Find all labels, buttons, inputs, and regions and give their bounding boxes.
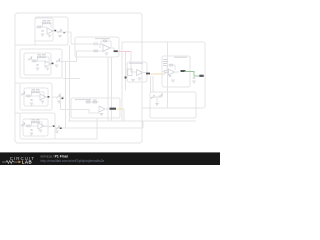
wire bus A2 xyxy=(69,45,71,121)
svg-text:LAB: LAB xyxy=(22,160,32,165)
stage2 feedback wire xyxy=(38,56,50,58)
feedback wire xyxy=(167,64,175,66)
wire xyxy=(98,43,103,45)
stage2 output wire xyxy=(51,63,54,65)
wire xyxy=(71,43,94,45)
wire xyxy=(68,120,196,122)
transistor Q2 xyxy=(159,94,163,98)
wire xyxy=(164,72,166,75)
svg-text:http://circuitlab.com/c/ce67qb: http://circuitlab.com/c/ce67qb4pkq6mna8w… xyxy=(41,159,105,163)
speaker label xyxy=(199,75,203,77)
wire xyxy=(15,82,20,84)
stage4 feedback wire xyxy=(32,121,43,123)
stage4 inner box xyxy=(23,119,48,136)
stage4 op-amp xyxy=(38,123,44,129)
wire bus B xyxy=(59,93,61,110)
input resistor xyxy=(165,71,169,73)
stage2 label xyxy=(52,63,54,65)
junction xyxy=(125,77,127,79)
wire xyxy=(52,96,56,98)
stage3 input capacitor xyxy=(30,100,32,101)
stage3 feedback resistor xyxy=(32,91,35,93)
wire xyxy=(143,72,147,74)
stage2 input source xyxy=(28,57,32,61)
driver op-amp xyxy=(137,70,143,76)
stage3 potentiometer xyxy=(56,95,60,99)
bottom op-amp ground xyxy=(100,114,104,116)
notes text xyxy=(163,58,168,61)
stage2 op-amp xyxy=(45,61,51,67)
wire xyxy=(85,101,99,103)
stage1 pot ground xyxy=(58,36,62,38)
right box divider xyxy=(167,42,169,108)
stage2 potentiometer xyxy=(56,59,60,63)
summing ground xyxy=(105,53,109,55)
stage4 output label xyxy=(53,125,55,127)
output amp box xyxy=(162,56,190,87)
op-amp cap xyxy=(169,76,171,77)
stage3 op-amp xyxy=(40,94,46,100)
driver ground xyxy=(131,80,135,82)
footer bar xyxy=(0,152,220,165)
stage4 feedback resistor xyxy=(32,121,35,123)
wire xyxy=(15,44,68,46)
driver op-amp ground xyxy=(138,78,142,80)
driver title xyxy=(129,62,143,65)
bottom amp title xyxy=(75,98,91,101)
stage4 output wire xyxy=(44,125,47,127)
summing feedback xyxy=(101,40,111,42)
stage2 ground xyxy=(36,68,40,70)
stage3 feedback wire xyxy=(32,91,45,93)
stage4 potentiometer xyxy=(56,126,60,130)
stage4 op-amp ground xyxy=(39,130,43,132)
green output label xyxy=(181,70,186,72)
wire xyxy=(175,71,180,73)
wire xyxy=(56,61,77,63)
wire xyxy=(121,42,123,121)
wire xyxy=(152,76,154,92)
stage1 value label xyxy=(43,19,47,22)
wire xyxy=(122,41,142,43)
stage2 input capacitor xyxy=(36,65,38,66)
annotation line xyxy=(55,138,97,140)
wire xyxy=(125,52,127,90)
stage3 node label xyxy=(62,98,64,100)
stage3 wire xyxy=(25,95,40,97)
stage2 pot ground xyxy=(55,65,59,67)
stage4 ground xyxy=(55,131,59,133)
stage1 inner box xyxy=(35,18,53,41)
stage2 feedback capacitor xyxy=(42,56,45,58)
stage3 value label xyxy=(32,88,36,91)
output node label xyxy=(114,50,118,52)
stage4 outer box xyxy=(20,113,55,139)
stage4 wire xyxy=(25,125,38,127)
stage4 junction xyxy=(60,127,62,129)
driver output label xyxy=(146,73,150,75)
stage4 feedback capacitor xyxy=(36,121,39,123)
wire xyxy=(152,96,162,98)
stage3 ground xyxy=(30,103,34,105)
pair ground xyxy=(155,104,159,106)
stage2 input resistor xyxy=(33,60,37,62)
stage1 feedback capacitor xyxy=(47,22,50,24)
output ground xyxy=(192,81,196,83)
bottom amp box xyxy=(71,98,120,118)
stage3 input source xyxy=(21,92,25,96)
logo diode (orange) xyxy=(19,160,22,163)
stage3 input resistor xyxy=(27,95,31,97)
wire xyxy=(130,52,132,73)
stage3 inner box xyxy=(24,88,48,106)
wire xyxy=(107,57,109,121)
stage2 value label xyxy=(38,53,42,56)
stage2 wire xyxy=(31,60,45,62)
wire xyxy=(110,47,114,49)
stage3 op-amp ground xyxy=(41,101,45,103)
stage2 inner box xyxy=(24,53,51,75)
wire bus A xyxy=(65,62,67,129)
stage3 label xyxy=(48,96,50,98)
outer annotation box xyxy=(15,13,142,143)
feedback resistor xyxy=(170,64,173,66)
wire xyxy=(156,97,158,103)
wire xyxy=(142,121,144,128)
bottom output label xyxy=(110,108,117,110)
annotation line xyxy=(63,78,81,80)
bottom op-amp xyxy=(99,106,105,112)
transistor Q1 xyxy=(151,95,155,99)
summing feedback resistor xyxy=(104,40,107,42)
logo resistor squiggle xyxy=(2,161,20,164)
op-amp ground xyxy=(171,80,175,82)
driver ic xyxy=(128,69,132,76)
wire xyxy=(132,71,137,73)
bottom-right annotation box xyxy=(150,92,196,118)
wire xyxy=(44,126,53,128)
stage1 label xyxy=(54,30,56,32)
stage2 outer box xyxy=(20,49,62,78)
summing amp box xyxy=(75,37,119,57)
wire xyxy=(94,50,103,52)
right annotation box xyxy=(142,42,205,108)
stage4 input resistor xyxy=(27,125,31,127)
output op-amp xyxy=(169,69,175,75)
output amp title xyxy=(174,56,187,59)
stage1 potentiometer xyxy=(58,29,62,33)
wire xyxy=(105,108,109,110)
orange net wire xyxy=(151,73,166,75)
stage1 outer box xyxy=(35,17,68,45)
summing input resistor R5 xyxy=(94,43,97,45)
stage3 output wire xyxy=(46,96,49,98)
output cap xyxy=(193,78,195,79)
value labels xyxy=(87,99,91,102)
svg-text:emraza / P1 Final: emraza / P1 Final xyxy=(41,154,68,158)
stage3 feedback capacitor xyxy=(36,91,39,93)
stage2 feedback resistor xyxy=(38,56,41,58)
stage1 ground xyxy=(41,34,45,36)
stage1 input capacitor xyxy=(41,31,43,32)
stage1 op-amp ground xyxy=(48,35,52,37)
stage1 node label xyxy=(63,32,65,34)
stage4 input capacitor xyxy=(30,130,32,131)
stage3 ground xyxy=(57,101,61,103)
pink net wire xyxy=(118,51,131,53)
summing input resistor R6 xyxy=(94,50,97,52)
stage4 ground xyxy=(30,133,34,135)
stage1 feedback wire xyxy=(43,22,52,24)
yellow net wire xyxy=(117,108,125,110)
wire xyxy=(53,30,54,32)
wire xyxy=(15,112,20,114)
stage3 outer box xyxy=(20,83,52,110)
wire xyxy=(89,112,99,114)
stage1 op-amp xyxy=(47,28,53,34)
wire xyxy=(150,76,152,92)
stage4 input source xyxy=(21,123,25,127)
stage4 value label xyxy=(32,118,36,121)
driver box xyxy=(127,62,147,82)
green net wire xyxy=(185,72,200,77)
stage2 op-amp ground xyxy=(46,68,50,70)
resistor R7 xyxy=(87,101,91,103)
stage1 feedback resistor xyxy=(43,22,46,24)
annotation line xyxy=(96,118,98,139)
stage1 output wire xyxy=(53,30,56,32)
resistor R8 xyxy=(93,101,97,103)
stage1 input resistor xyxy=(38,26,42,28)
stage1 wire xyxy=(36,26,47,28)
summing amp title xyxy=(95,37,110,40)
wire xyxy=(167,71,169,73)
wire xyxy=(111,57,113,121)
wire xyxy=(123,109,125,121)
summing op-amp xyxy=(103,45,110,52)
